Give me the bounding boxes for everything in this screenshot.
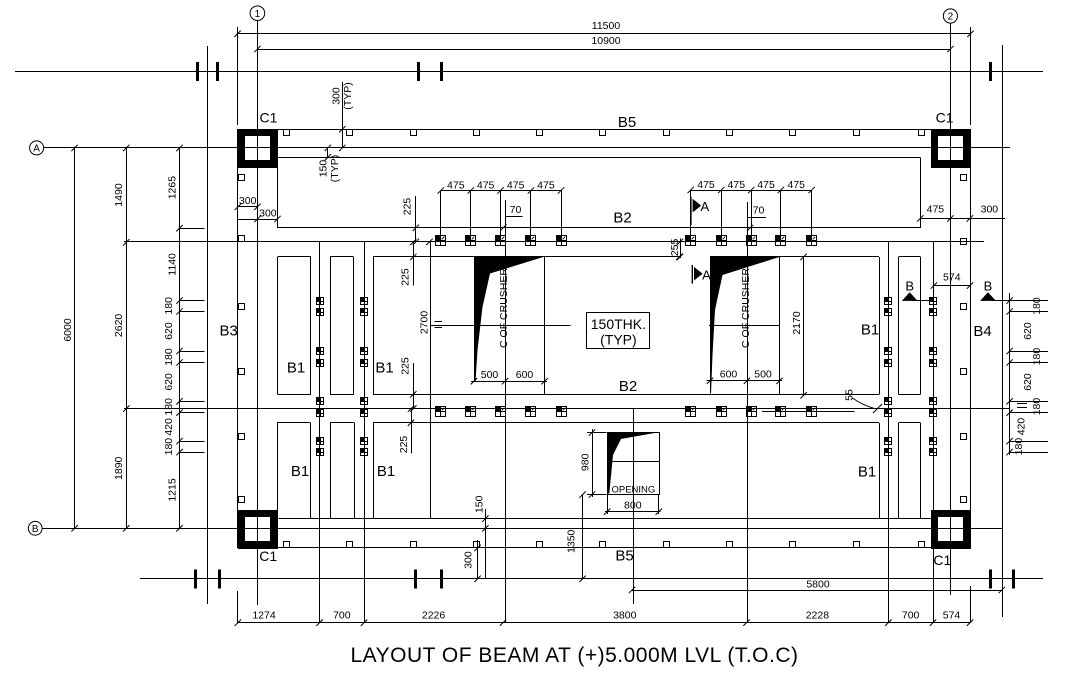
svg-text:225: 225 [399,268,411,286]
svg-text:225: 225 [399,357,411,375]
svg-text:574: 574 [943,272,961,284]
svg-text:LAYOUT OF BEAM AT (+)5.000M LV: LAYOUT OF BEAM AT (+)5.000M LVL (T.O.C) [351,644,799,667]
svg-text:3800: 3800 [613,609,637,621]
svg-text:C1: C1 [936,109,954,125]
svg-text:C1: C1 [933,552,951,568]
svg-text:2: 2 [948,12,954,23]
svg-text:1: 1 [255,9,261,20]
svg-text:600: 600 [516,369,534,381]
svg-text:OPENING: OPENING [611,484,655,495]
svg-text:1215: 1215 [166,478,178,502]
svg-text:B1: B1 [858,464,876,481]
svg-text:(TYP): (TYP) [600,332,637,348]
svg-text:620: 620 [1022,322,1034,340]
svg-text:300: 300 [981,204,999,216]
svg-text:300: 300 [239,195,257,207]
svg-text:180: 180 [163,438,175,456]
svg-text:620: 620 [1022,373,1034,391]
svg-text:180: 180 [1031,297,1043,315]
svg-text:150: 150 [473,495,485,513]
svg-text:B1: B1 [291,463,309,480]
svg-text:475: 475 [537,180,555,192]
svg-text:180: 180 [1031,398,1043,416]
svg-text:B5: B5 [618,114,636,131]
svg-text:11500: 11500 [592,20,621,32]
svg-text:B: B [984,279,993,294]
svg-text:B1: B1 [861,322,879,339]
svg-text:B3: B3 [220,323,238,340]
svg-text:180: 180 [163,297,175,315]
svg-text:6000: 6000 [62,318,74,342]
svg-text:B: B [32,524,39,535]
svg-text:2170: 2170 [791,311,803,335]
svg-text:475: 475 [507,180,525,192]
svg-text:475: 475 [927,204,945,216]
svg-text:C1: C1 [260,109,278,125]
svg-text:180: 180 [1031,348,1043,366]
svg-text:300: 300 [462,551,474,569]
svg-text:B1: B1 [377,463,395,480]
svg-text:C OF CRUSHER: C OF CRUSHER [740,268,752,348]
svg-text:420: 420 [163,418,175,436]
svg-text:180: 180 [163,398,175,416]
svg-text:500: 500 [754,368,772,380]
svg-text:B2: B2 [613,210,631,227]
svg-text:225: 225 [398,436,410,454]
svg-text:2620: 2620 [113,314,125,338]
svg-text:255: 255 [669,238,681,256]
svg-text:B4: B4 [973,323,991,340]
svg-text:1490: 1490 [113,183,125,207]
svg-text:800: 800 [624,499,642,511]
svg-text:C1: C1 [259,548,277,564]
svg-text:1265: 1265 [166,176,178,200]
svg-text:10900: 10900 [591,35,620,47]
svg-text:B: B [905,279,914,294]
svg-text:A: A [33,144,40,155]
svg-text:150THK.: 150THK. [591,316,646,332]
svg-text:1274: 1274 [252,609,276,621]
svg-text:2226: 2226 [422,609,446,621]
svg-text:A: A [700,199,709,214]
svg-text:420: 420 [1015,418,1027,436]
svg-text:620: 620 [163,373,175,391]
svg-text:500: 500 [481,369,499,381]
svg-text:700: 700 [333,609,351,621]
svg-text:70: 70 [510,204,522,216]
svg-text:1890: 1890 [113,456,125,480]
svg-text:475: 475 [477,180,495,192]
svg-text:980: 980 [580,453,592,471]
svg-text:2228: 2228 [806,609,830,621]
svg-text:70: 70 [753,204,765,216]
svg-text:180: 180 [1013,438,1025,456]
svg-text:2700: 2700 [418,311,430,335]
svg-text:1140: 1140 [166,253,178,276]
svg-text:1350: 1350 [566,529,578,553]
svg-text:225: 225 [402,198,414,216]
svg-text:300: 300 [330,87,342,105]
svg-text:574: 574 [943,609,961,621]
svg-text:B1: B1 [287,360,305,377]
svg-text:A: A [702,268,711,283]
svg-text:700: 700 [902,609,920,621]
svg-text:475: 475 [757,179,775,191]
svg-text:475: 475 [697,179,715,191]
svg-text:150: 150 [317,160,329,178]
svg-text:180: 180 [163,348,175,366]
svg-text:600: 600 [720,368,738,380]
svg-text:B2: B2 [619,378,637,395]
svg-text:C OF CRUSHER: C OF CRUSHER [498,268,510,348]
svg-text:5800: 5800 [806,578,830,590]
svg-text:300: 300 [259,207,277,219]
svg-text:B1: B1 [375,360,393,377]
svg-text:475: 475 [787,179,805,191]
svg-text:B5: B5 [615,547,633,564]
svg-text:475: 475 [728,179,746,191]
svg-text:620: 620 [163,322,175,340]
svg-text:(TYP): (TYP) [329,155,341,182]
svg-text:(TYP): (TYP) [342,82,354,109]
svg-text:475: 475 [447,180,465,192]
